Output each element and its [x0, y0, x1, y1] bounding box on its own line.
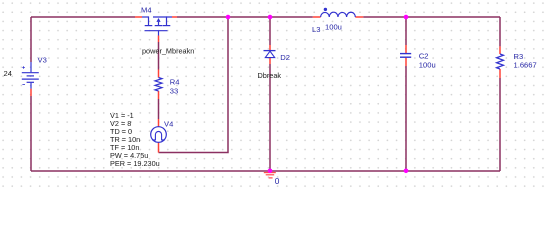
- svg-text:R4: R4: [170, 77, 180, 86]
- svg-text:M4: M4: [141, 5, 152, 14]
- svg-text:L3: L3: [312, 25, 320, 34]
- svg-text:PER = 19.230u: PER = 19.230u: [110, 159, 160, 168]
- svg-text:24: 24: [4, 69, 12, 78]
- svg-text:D2: D2: [280, 53, 290, 62]
- svg-text:0: 0: [275, 176, 280, 186]
- svg-text:100u: 100u: [419, 60, 436, 69]
- svg-text:V3: V3: [38, 55, 47, 64]
- svg-text:R3: R3: [514, 52, 524, 61]
- svg-text:33: 33: [170, 87, 178, 96]
- svg-text:Dbreak: Dbreak: [258, 71, 282, 80]
- svg-text:power_Mbreakn: power_Mbreakn: [142, 47, 194, 56]
- svg-text:V4: V4: [164, 120, 173, 129]
- svg-text:1.6667: 1.6667: [514, 61, 537, 70]
- svg-text:100u: 100u: [325, 23, 342, 32]
- svg-text:C2: C2: [419, 51, 429, 60]
